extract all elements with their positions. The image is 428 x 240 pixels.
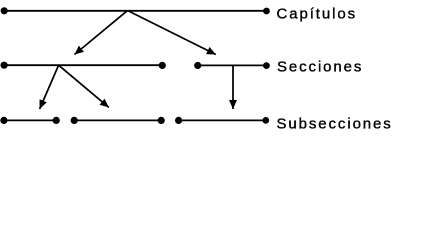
wire section line B [198,64,267,66]
node sectionB-left endpoint [194,62,201,69]
svg-text:Subsecciones: Subsecciones [277,116,393,133]
arrow section to subsection C (vertical) [232,66,234,110]
wire section line A [4,64,162,66]
arrow chapter to section B [128,11,216,55]
node subsection3-right endpoint [262,117,269,124]
node sectionA-left endpoint [1,62,8,69]
node sectionA-right endpoint [159,62,166,69]
node subsection2-right endpoint [158,117,165,124]
node chapter-right endpoint [263,8,270,15]
wire subsection line 3 [179,119,266,121]
node subsection2-left endpoint [71,117,78,124]
svg-text:Capítulos: Capítulos [277,6,357,23]
node chapter-left endpoint [1,7,8,14]
arrow section to subsection A [40,65,59,109]
wire chapter line [4,10,267,12]
node subsection1-right endpoint [53,117,60,124]
node subsection3-left endpoint [175,117,182,124]
arrow chapter to section A [75,11,128,55]
arrow section to subsection B [59,65,109,107]
wire subsection line 1 [4,119,56,121]
node subsection1-left endpoint [0,117,7,124]
svg-text:Secciones: Secciones [277,59,363,76]
wire subsection line 2 [74,119,161,121]
node sectionB-right endpoint [263,62,270,69]
